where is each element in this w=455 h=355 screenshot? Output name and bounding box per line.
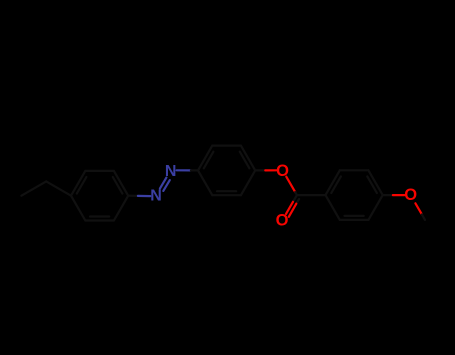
svg-text:O: O (276, 162, 289, 180)
svg-text:N: N (150, 188, 162, 205)
svg-text:O: O (276, 212, 289, 230)
svg-text:O: O (404, 186, 417, 204)
svg-text:N: N (165, 163, 177, 180)
